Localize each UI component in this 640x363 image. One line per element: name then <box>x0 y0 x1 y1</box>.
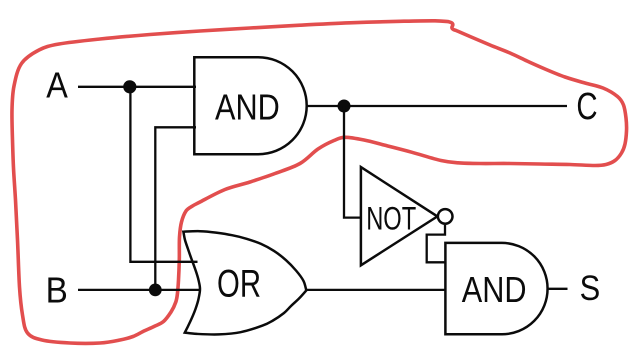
wire A-junction riser down to OR top input <box>130 87 197 262</box>
svg-text:C: C <box>576 86 597 128</box>
wire input B to OR bottom input <box>78 289 201 291</box>
NOT gate U3 triangle <box>361 167 438 265</box>
NOT gate inversion bubble <box>438 209 453 224</box>
svg-text:AND: AND <box>215 87 280 128</box>
junction dot on B wire <box>149 284 162 297</box>
svg-text:NOT: NOT <box>366 200 416 236</box>
AND gate U4 body <box>445 243 547 334</box>
AND gate U1 body <box>194 57 306 154</box>
svg-text:AND: AND <box>462 269 527 310</box>
wire AND2 output to S <box>548 288 568 290</box>
junction dot on A wire <box>123 80 136 93</box>
wire C-junction riser down to NOT input <box>344 106 361 218</box>
svg-text:OR: OR <box>217 263 261 306</box>
wire OR output to AND2 bottom input <box>305 289 445 291</box>
svg-text:B: B <box>46 269 68 310</box>
wire NOT bubble step down to AND2 top input <box>427 225 445 262</box>
wire B-junction riser up to AND1 bottom input <box>155 127 196 290</box>
junction dot on C wire <box>338 100 351 113</box>
wire AND1 output to C <box>307 105 567 107</box>
svg-text:A: A <box>46 65 68 106</box>
svg-text:S: S <box>580 269 601 308</box>
wire input A to AND1 top input <box>78 86 196 88</box>
OR gate U2 body <box>183 231 306 334</box>
